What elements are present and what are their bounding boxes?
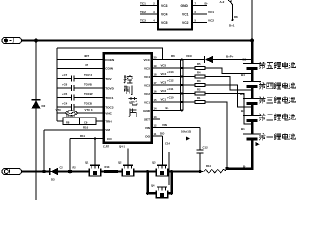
svg-text:VM: VM: [105, 128, 110, 132]
svg-text:B1: B1: [241, 127, 245, 131]
wire cell4 to cell3: [251, 86, 254, 98]
svg-text:B-: B-: [166, 106, 169, 110]
svg-text:R13: R13: [105, 165, 110, 169]
svg-text:TOVB: TOVB: [84, 83, 92, 87]
U2 left pin labels: [140, 1, 155, 22]
svg-text:+C6: +C6: [62, 83, 68, 87]
VIN RC filter: [181, 128, 208, 172]
svg-text:R1: R1: [197, 96, 201, 100]
svg-text:VC3: VC3: [144, 83, 150, 87]
wire VC3 tap to node between B3 and B2: [183, 85, 252, 107]
svg-text:GND: GND: [143, 109, 151, 113]
svg-text:TOVD: TOVD: [105, 86, 114, 90]
capacitor C7: [71, 76, 74, 82]
svg-text:VC1: VC1: [182, 13, 189, 17]
RC box on TRH row: [63, 118, 96, 125]
resistor R3: [195, 79, 205, 87]
svg-text:D+1: D+1: [229, 24, 235, 28]
label 第二锂电池: [259, 114, 296, 121]
svg-text:D2: D2: [42, 104, 46, 108]
label 第五锂电池: [259, 62, 296, 69]
wire VC5 pin 19: [152, 67, 181, 69]
tap wires to cells: [183, 68, 252, 169]
node rail-VC1: [181, 101, 183, 103]
node gate M1: [94, 137, 96, 139]
diode D3 on bottom wire: [50, 168, 58, 182]
svg-text:VC1: VC1: [161, 98, 167, 102]
svg-text:+C13: +C13: [167, 70, 174, 74]
U1 left pin names: [105, 58, 115, 141]
svg-text:12: 12: [154, 123, 157, 127]
svg-text:10k±1Ω: 10k±1Ω: [181, 129, 192, 133]
svg-text:16: 16: [154, 89, 157, 93]
wire TOC1 pin 5: [57, 97, 104, 99]
bottom connector P2: [2, 168, 22, 174]
svg-text:SET: SET: [144, 117, 150, 121]
battery B2 (cell 2): [243, 115, 261, 120]
wire SET pin 13 stub: [152, 118, 161, 120]
annotation arrow top right: [220, 0, 239, 28]
svg-text:B-: B-: [243, 164, 246, 168]
battery B3 (cell 3): [243, 98, 261, 103]
wire U2 pins 7,6,5 (GND,VC1,VC2): [192, 6, 207, 23]
svg-text:Q2: Q2: [118, 161, 122, 165]
svg-text:B2: B2: [241, 109, 245, 113]
wire VC1 tap down to B- node: [183, 102, 227, 169]
svg-text:TOCW: TOCW: [84, 92, 93, 96]
svg-text:VTC 3: VTC 3: [85, 108, 93, 112]
wire to B+: [213, 59, 252, 61]
svg-text:DO: DO: [145, 134, 150, 138]
IC U2 (top balance chip, cut at top edge): [158, 0, 192, 29]
wire VIN pin 12: [152, 127, 201, 129]
svg-text:Q4-1: Q4-1: [119, 145, 125, 149]
wire cell5 to cell4: [251, 68, 254, 81]
svg-text:R6: R6: [171, 54, 175, 58]
U1 right pin wires: [152, 60, 206, 137]
node Q3 source right: [170, 170, 173, 173]
wire VC3 pin 17: [152, 84, 181, 86]
wire VC4 tap to node between B4 and B3: [183, 77, 252, 91]
svg-text:VCC: VCC: [143, 58, 150, 62]
node CO bottom: [67, 170, 72, 174]
svg-text:VC2: VC2: [208, 19, 214, 23]
resistor R1: [195, 96, 205, 104]
svg-text:TOV: TOV: [105, 77, 112, 81]
svg-text:+C11: +C11: [167, 87, 174, 91]
wire COIN pin 2: [57, 67, 104, 69]
node Q4 source right: [170, 192, 173, 195]
svg-text:18: 18: [154, 72, 157, 76]
U1 left pin wires: [57, 60, 104, 122]
svg-text:R2: R2: [197, 88, 201, 92]
svg-text:C11Ω1: C11Ω1: [66, 114, 75, 118]
wire VNC pin 7: [57, 112, 104, 114]
svg-text:Q4: Q4: [151, 184, 155, 188]
battery B5 (cell 5): [243, 63, 261, 68]
rail junction dots: [181, 59, 183, 112]
svg-text:COIN: COIN: [105, 67, 114, 71]
IC U1 control chip box: [104, 53, 152, 143]
wire TOVD pin 4: [57, 87, 104, 89]
svg-text:TOCB: TOCB: [84, 102, 92, 106]
svg-text:Q3: Q3: [152, 161, 156, 165]
junction dots around FETs: [146, 170, 202, 195]
svg-text:C,R7: C,R7: [103, 145, 110, 149]
svg-text:VIN: VIN: [145, 126, 151, 130]
capacitor C4: [71, 104, 74, 110]
battery bus segments: [227, 41, 252, 169]
svg-text:VC3: VC3: [161, 81, 167, 85]
Q4 gate wire: [168, 152, 170, 185]
node Q4 drain left: [146, 192, 149, 195]
wire VCC top link: [57, 48, 163, 60]
wire TOC3 pin 6: [57, 106, 104, 108]
U2 right pin labels: [195, 1, 215, 22]
wire bus top thin: [251, 0, 253, 41]
svg-text:13: 13: [154, 115, 157, 119]
svg-text:VTC: VTC: [56, 108, 62, 112]
wire VC2 pin 16: [152, 93, 181, 95]
svg-text:GND: GND: [181, 4, 189, 8]
node resistor-bus: [225, 167, 228, 170]
resistor R4: [195, 71, 205, 79]
wire VM row: [44, 130, 104, 172]
wire DO pin 11: [152, 135, 163, 137]
capacitor rail (double vertical): [181, 60, 183, 111]
svg-text:VIN: VIN: [162, 123, 167, 127]
svg-text:+C5: +C5: [62, 92, 68, 96]
node rail-VC2: [181, 93, 183, 95]
MOSFET Q1: [85, 139, 101, 176]
svg-text:R11: R11: [80, 134, 85, 138]
svg-text:VC2: VC2: [144, 92, 150, 96]
svg-text:VC1: VC1: [144, 100, 150, 104]
svg-text:TOC1: TOC1: [105, 96, 113, 100]
wire VC2 tap to node between B2 and B1: [183, 94, 252, 125]
wire VC5 tap to node between B5 and B4: [183, 68, 252, 74]
thermistor RT: [66, 111, 78, 116]
node rail-VC4: [181, 76, 183, 78]
node rail-B-: [181, 110, 183, 112]
svg-text:B-: B-: [205, 2, 208, 6]
label 第三锂电池: [259, 97, 296, 104]
svg-text:R4: R4: [197, 71, 201, 75]
svg-text:A-2: A-2: [220, 0, 225, 4]
DO gate wire: [162, 136, 164, 166]
right net labels: [160, 54, 193, 135]
svg-text:DOEN: DOEN: [105, 58, 115, 62]
+C labels mid right: [167, 70, 174, 100]
MOSFET Q2: [103, 145, 134, 177]
node VM bottom: [42, 170, 46, 173]
svg-text:TC3: TC3: [140, 19, 146, 23]
svg-text:R10: R10: [83, 125, 89, 129]
inductor L1 between FETs: [104, 165, 118, 173]
wire left rail: [56, 48, 58, 121]
bus tap labels: [240, 58, 247, 169]
MOSFET Q4: [151, 184, 168, 198]
svg-text:R14: R14: [206, 164, 211, 168]
wire GND pin 14 net B-: [152, 110, 183, 112]
svg-text:VC4: VC4: [144, 75, 150, 79]
label 第一锂电池: [259, 133, 296, 140]
svg-text:B+P+: B+P+: [226, 55, 234, 59]
svg-text:TRH: TRH: [105, 119, 112, 123]
svg-text:VC1: VC1: [208, 10, 214, 14]
node rail-VCC: [181, 59, 183, 61]
wire U2 pins 2,3,4 (VC3,VC4,VC5): [140, 6, 158, 23]
capacitor C6: [71, 85, 74, 91]
wire VCC pin 20: [152, 59, 206, 61]
MOSFET Q3: [152, 161, 168, 177]
diode D4: [205, 56, 214, 63]
label 控制芯片: [124, 75, 137, 117]
node rail-VC5: [181, 67, 183, 69]
arrow mark near cell1: [256, 142, 260, 146]
wire DOEN pin 1: [57, 59, 104, 61]
svg-text:C9: C9: [84, 120, 88, 124]
wire TOV pin 3: [57, 78, 104, 80]
svg-text:19: 19: [154, 64, 157, 68]
svg-text:+C4: +C4: [62, 102, 68, 106]
wire VC1 pin 15: [152, 101, 181, 103]
node junction top-right bus: [250, 39, 254, 43]
U1 right pin names inside: [143, 58, 151, 139]
svg-text:TOC3: TOC3: [105, 105, 113, 109]
svg-text:D3: D3: [51, 178, 55, 182]
resistor R14 zigzag bottom right: [200, 164, 227, 173]
resistor R5: [195, 62, 205, 70]
node Q3 drain left: [146, 170, 149, 173]
svg-text:+C12: +C12: [167, 78, 174, 82]
battery B4 (cell 4): [243, 81, 261, 86]
left area labels: [56, 54, 93, 138]
svg-text:+C10: +C10: [167, 95, 174, 99]
svg-text:Q1: Q1: [85, 161, 89, 165]
svg-text:TC1: TC1: [140, 2, 146, 6]
svg-text:VC3: VC3: [161, 4, 168, 8]
svg-text:47: 47: [85, 63, 89, 67]
thick side links around Q4: [148, 172, 172, 194]
svg-text:CO: CO: [107, 137, 112, 141]
capacitor C5: [71, 95, 74, 101]
svg-text:VC2: VC2: [182, 21, 189, 25]
svg-text:17: 17: [154, 81, 157, 85]
svg-text:VC4: VC4: [161, 13, 168, 17]
node rail-VC3: [181, 84, 183, 86]
svg-text:VC5: VC5: [161, 64, 167, 68]
U1 right pin numbers: [154, 55, 157, 135]
svg-text:R8: R8: [234, 15, 238, 19]
battery B1 (cell 1): [243, 134, 261, 139]
svg-text:R5: R5: [197, 62, 201, 66]
wire cell2 to cell1: [251, 120, 254, 133]
diode D2 on left vertical: [32, 41, 46, 201]
connector P1 (top left plug): [2, 37, 22, 43]
svg-text:R3: R3: [197, 79, 201, 83]
svg-text:B3: B3: [240, 92, 244, 96]
wire cell1 to B- corner: [227, 139, 252, 169]
svg-text:TC2: TC2: [140, 10, 146, 14]
svg-text:14: 14: [154, 106, 157, 110]
svg-text:DO: DO: [160, 132, 165, 136]
wire cell3 to cell2: [251, 103, 254, 115]
svg-text:TOV 2: TOV 2: [84, 73, 92, 77]
svg-text:VNC: VNC: [105, 111, 112, 115]
svg-text:VC5: VC5: [161, 21, 168, 25]
wire bus B+ to cell5: [251, 41, 254, 64]
svg-text:C14: C14: [165, 142, 170, 146]
svg-text:VC4: VC4: [161, 72, 167, 76]
svg-text:VC5: VC5: [144, 66, 150, 70]
wire main top B+: [22, 40, 253, 42]
svg-text:VC2: VC2: [161, 89, 167, 93]
svg-text:15: 15: [154, 98, 157, 102]
label 第四锂电池: [259, 82, 296, 89]
svg-text:20: 20: [154, 55, 157, 59]
wire TRH pin 8: [57, 120, 104, 122]
resistor R2: [195, 88, 205, 96]
svg-text:VCC: VCC: [186, 54, 193, 58]
svg-text:R8: R8: [66, 120, 70, 124]
node junction top-left: [34, 39, 38, 43]
svg-text:C12: C12: [203, 146, 209, 150]
node VIN filter: [198, 170, 201, 173]
bottom main wire: [22, 171, 201, 173]
svg-text:+C7: +C7: [62, 73, 68, 77]
svg-text:4R7: 4R7: [84, 54, 90, 58]
wire CO row: [70, 139, 104, 172]
wire VC4 pin 18: [152, 76, 181, 78]
